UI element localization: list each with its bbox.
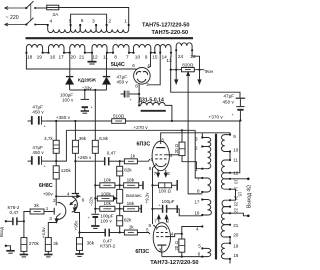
row: coupling to lower output grid (0,47 К73П-2, 1k) — [80, 224, 151, 248]
capacitor 47uF 450v (main +370v filter) — [223, 94, 246, 122]
transformer T1 core — [26, 37, 194, 39]
svg-text:22: 22 — [234, 208, 239, 213]
svg-text:6: 6 — [132, 63, 135, 68]
svg-text:10: 10 — [233, 148, 239, 153]
svg-text:+4,5v: +4,5v — [41, 227, 46, 239]
wire 5Ц4С cathode pin 8 down to choke — [138, 84, 140, 107]
svg-text:4: 4 — [50, 19, 53, 25]
T2 jumper pin14 to pin24 with tap 15 — [230, 189, 236, 200]
svg-text:100 Ω: 100 Ω — [159, 188, 172, 193]
T2 right winding 9-10 — [221, 134, 238, 153]
svg-text:6,8k: 6,8k — [99, 136, 108, 141]
mains input arrows ~220 — [5, 7, 26, 27]
svg-text:450 v: 450 v — [223, 100, 235, 105]
wire pin21 to pin12 — [85, 52, 92, 54]
wire from pin 18 down and right to rectifier anode — [26, 53, 136, 69]
wire 5Ц4С pin 2 right up to winding pin 14 — [149, 53, 161, 85]
T2 left winding 2-1 — [195, 147, 211, 173]
T2 right winding 21-20 — [221, 225, 230, 237]
svg-text:82k: 82k — [124, 217, 132, 222]
resistor 36k — [72, 121, 92, 162]
svg-text:6П3С: 6П3С — [135, 249, 149, 255]
svg-text:16: 16 — [194, 210, 200, 215]
svg-text:100μF: 100μF — [162, 199, 175, 204]
cathode line connecting output tubes — [144, 168, 153, 224]
svg-text:100 v: 100 v — [62, 97, 74, 102]
svg-text:7: 7 — [154, 171, 157, 176]
svg-text:+90v: +90v — [43, 192, 54, 197]
svg-text:1k: 1k — [129, 224, 135, 229]
HV feed winding pin 13 to main filter cap — [171, 53, 240, 98]
resistor 82k (upper grid leak) — [117, 161, 133, 189]
screen tap wire to transformer pin 1 — [182, 156, 202, 169]
V2a cathode to 3k cathode resistor — [41, 221, 59, 257]
svg-text:−33v: −33v — [82, 85, 93, 90]
svg-text:18: 18 — [233, 253, 239, 258]
wire 5Ц4С anode pin4 up to winding pin 9 — [148, 53, 151, 68]
resistor 3k (grid stopper) — [24, 203, 54, 222]
resistor 4,7k — [44, 121, 59, 162]
svg-text:10k: 10k — [104, 177, 112, 182]
capacitor 47uF 450v (first filter) — [117, 75, 140, 102]
svg-text:12: 12 — [92, 55, 98, 61]
choke L1 Д31-5-0,14 — [138, 97, 173, 122]
+270 rail drop to transformer pin 7 — [195, 130, 202, 178]
T2 right winding 12-13 — [222, 173, 230, 179]
svg-text:4: 4 — [170, 153, 173, 158]
switch SA1 (double pole) — [25, 1, 36, 25]
svg-text:8: 8 — [197, 189, 200, 194]
secondary winding 12-11 — [91, 45, 108, 61]
svg-text:0,47: 0,47 — [10, 210, 19, 215]
T2 right winding 23-22 — [222, 207, 230, 214]
svg-text:2A: 2A — [53, 12, 60, 18]
T2 top jumper pin3 to pin9 — [202, 133, 230, 138]
resistor 510Ω in rail — [112, 114, 126, 124]
rectifier tube V1 5Ц4С — [111, 62, 150, 89]
-33v node wire — [70, 85, 107, 91]
output terminal 1 from pin 13 — [230, 178, 250, 181]
svg-text:13: 13 — [166, 58, 172, 64]
svg-text:21: 21 — [233, 223, 239, 228]
wire pin7 to pin10 — [129, 52, 134, 54]
svg-text:~ 220: ~ 220 — [6, 15, 19, 21]
svg-text:1k: 1k — [130, 154, 136, 159]
svg-text:820Ω: 820Ω — [182, 62, 194, 67]
T2 left winding 7-8 — [197, 176, 211, 193]
svg-text:3: 3 — [92, 18, 95, 24]
wire V2a anode to V2b grid (+90v line) — [56, 191, 80, 197]
svg-text:8: 8 — [135, 84, 138, 89]
triode V2a (left half of 6Н8С) — [49, 196, 66, 222]
wire +270 node corner to rail — [56, 130, 66, 161]
lower tube screen wire and 20Ω — [166, 227, 202, 258]
secondary winding 24-22 (hum pot winding) — [175, 43, 196, 60]
svg-text:24: 24 — [234, 196, 239, 201]
lower tube heater pins with arrows — [154, 215, 169, 223]
secondary winding 20-21 — [69, 45, 86, 61]
triode V2b (right half of 6Н8С, phase splitter) — [70, 161, 85, 212]
svg-text:11: 11 — [103, 55, 108, 61]
svg-text:Вход: Вход — [0, 227, 4, 237]
wire fuse to primary pin 1 — [59, 8, 129, 25]
T2 right winding 13-14 — [222, 179, 230, 189]
svg-text:8: 8 — [149, 223, 152, 228]
svg-text:4,7k: 4,7k — [44, 136, 53, 141]
+270v rail — [66, 125, 195, 130]
capacitor 47uF 450v (decoupling cap on +270v node) — [28, 145, 57, 169]
svg-text:20 Ω: 20 Ω — [174, 143, 179, 153]
balance pot 100k (Баланс) — [117, 189, 143, 215]
cathode row 1: 100Ω with end plates — [153, 180, 178, 193]
svg-text:19: 19 — [233, 243, 239, 248]
svg-text:+95v: +95v — [74, 220, 79, 230]
T2 left tap pin 4 (screen UL tap) — [201, 225, 203, 227]
output tube V3 6П3С (upper) — [137, 136, 174, 172]
svg-text:2: 2 — [146, 82, 149, 87]
svg-text:82k: 82k — [124, 168, 132, 173]
output tube V4 6П3С (lower) — [135, 223, 174, 257]
V2b cathode wire down to lower coupling row — [74, 210, 81, 234]
svg-text:270k: 270k — [29, 241, 40, 246]
svg-text:Выход 4Ω: Выход 4Ω — [246, 185, 252, 208]
svg-text:20: 20 — [233, 233, 239, 238]
svg-text:20 Ω: 20 Ω — [174, 240, 179, 250]
svg-text:2: 2 — [167, 171, 170, 176]
svg-text:3k: 3k — [34, 203, 40, 208]
svg-text:5Ц4С: 5Ц4С — [111, 62, 125, 68]
svg-text:Фон: Фон — [205, 69, 214, 74]
jumper pin5 to pin2 — [71, 14, 107, 24]
svg-text:17: 17 — [194, 199, 200, 204]
transformer T1 primary winding 4-5-6-3-2-1 — [47, 18, 130, 33]
svg-text:+265 v: +265 v — [77, 155, 92, 160]
+370 rail drop to transformer pin 12 — [230, 121, 240, 173]
svg-text:+270 v: +270 v — [133, 125, 148, 130]
svg-text:10: 10 — [135, 55, 141, 61]
svg-text:3: 3 — [161, 138, 164, 143]
resistor 120k — [53, 161, 71, 197]
svg-text:36k: 36k — [79, 136, 87, 141]
T2 right winding 22-21 — [222, 213, 230, 224]
svg-text:6: 6 — [82, 198, 85, 203]
ground below bias line cap — [91, 226, 99, 228]
svg-text:8: 8 — [114, 55, 117, 61]
ground below bias filter cap — [81, 111, 89, 113]
svg-text:ТАН73-127/220-50: ТАН73-127/220-50 — [150, 260, 198, 266]
svg-text:17: 17 — [59, 55, 65, 61]
svg-text:7: 7 — [126, 55, 129, 61]
hum pot 820Ω Фон — [170, 50, 214, 194]
svg-text:КД205Ж: КД205Ж — [78, 78, 97, 83]
+370v / +360v rail — [46, 114, 241, 122]
resistor 270k (grid leak) — [20, 221, 40, 257]
svg-text:2: 2 — [195, 145, 198, 150]
upper tube anode wire to output transformer top — [161, 133, 202, 136]
svg-text:5: 5 — [146, 228, 149, 233]
svg-text:ТАН75-220-50: ТАН75-220-50 — [152, 30, 189, 36]
ground at input terminal — [6, 246, 15, 253]
secondary winding 8-7 — [112, 44, 130, 60]
svg-text:−22v: −22v — [89, 196, 94, 206]
lower tube anode wire to transformer pin 6 — [162, 256, 203, 258]
svg-text:21: 21 — [79, 55, 85, 61]
capacitor 100uF 100v (bias filter) — [60, 90, 94, 111]
cathode row 2: 100uF to cathode winding — [153, 199, 203, 216]
wire pin9 to pin15 — [151, 52, 155, 54]
svg-text:18k: 18k — [127, 201, 135, 206]
svg-text:+9,3v: +9,3v — [144, 192, 149, 204]
svg-text:120k: 120k — [61, 168, 72, 173]
svg-text:6П3С: 6П3С — [137, 141, 151, 147]
svg-text:36k: 36k — [87, 241, 95, 246]
svg-text:10k: 10k — [104, 201, 112, 206]
svg-text:18: 18 — [27, 55, 33, 61]
wire pin19 to pin16 — [43, 52, 49, 54]
svg-text:3: 3 — [195, 136, 198, 141]
svg-text:23: 23 — [234, 202, 239, 207]
ground at winding tap 12 — [88, 53, 97, 64]
svg-text:+360 v: +360 v — [56, 115, 71, 120]
svg-text:510Ω: 510Ω — [113, 114, 125, 119]
output transformer T2 core — [215, 134, 217, 260]
svg-text:20: 20 — [71, 55, 77, 61]
svg-text:15: 15 — [152, 55, 158, 61]
secondary winding 16-17 — [47, 44, 65, 60]
svg-text:1: 1 — [46, 206, 49, 211]
svg-text:13: 13 — [234, 179, 239, 184]
svg-text:1: 1 — [195, 167, 198, 172]
bias row C: 10k and 18k — [95, 201, 141, 213]
capacitor К78-2 0,47 (input) — [6, 205, 25, 225]
feedback resistor 36k — [75, 233, 94, 257]
svg-text:2: 2 — [108, 18, 111, 24]
svg-text:19: 19 — [37, 55, 43, 61]
svg-text:1: 1 — [124, 19, 127, 25]
upper tube heater pins with arrows — [154, 170, 171, 177]
T2 left winding 17-16 — [194, 198, 211, 216]
bias diode VD1 КД205Ж — [66, 53, 73, 90]
svg-text:5: 5 — [198, 244, 201, 249]
svg-text:7: 7 — [197, 176, 200, 181]
svg-text:4: 4 — [171, 231, 174, 236]
T2 right winding 19-18 — [221, 243, 230, 259]
svg-text:18k: 18k — [127, 177, 135, 182]
wire switch to fuse — [35, 7, 47, 9]
wire switch to primary pin 4 — [35, 24, 48, 26]
svg-text:9: 9 — [233, 134, 236, 139]
bias row A: 10k and 18k — [95, 177, 143, 189]
svg-text:К73П-2: К73П-2 — [100, 243, 116, 248]
svg-text:6: 6 — [198, 252, 201, 257]
svg-text:100 v: 100 v — [100, 219, 112, 224]
svg-text:0,47: 0,47 — [107, 150, 116, 155]
svg-text:+370 v: +370 v — [209, 114, 224, 119]
bias row B: 100k to balance pot wiper — [95, 192, 116, 201]
svg-text:2: 2 — [167, 219, 170, 224]
svg-text:3: 3 — [159, 247, 162, 252]
svg-text:450 v: 450 v — [32, 150, 44, 155]
svg-text:450 v: 450 v — [117, 80, 129, 85]
svg-text:47μF: 47μF — [224, 94, 235, 99]
resistor 82k (lower grid leak) — [117, 216, 132, 233]
svg-text:4: 4 — [196, 227, 199, 232]
svg-text:12: 12 — [233, 170, 239, 175]
T2 right winding 11-12 — [221, 158, 238, 176]
svg-text:8: 8 — [149, 166, 152, 171]
T2 right winding 24-23 — [229, 199, 231, 201]
resistor 6,8k (bias dropper) — [89, 90, 109, 214]
T2 wire pin10 to pin11 — [229, 152, 231, 161]
wire pin11 to pin8 — [107, 52, 113, 54]
fuse FU1 2A — [47, 5, 59, 18]
bias diode VD2 КД205Ж — [103, 53, 110, 90]
secondary winding 10-9 — [132, 44, 152, 60]
svg-text:450 v: 450 v — [32, 110, 44, 115]
output terminal 2 from pin 22 — [230, 213, 250, 217]
screen resistor 20Ω (upper) — [166, 129, 185, 155]
T2 wire pin20 to pin19 — [229, 237, 231, 243]
svg-text:4: 4 — [67, 191, 70, 196]
svg-text:22: 22 — [190, 54, 196, 60]
svg-text:ТАН75-127/220-50: ТАН75-127/220-50 — [142, 23, 190, 29]
input terminal Вход — [0, 220, 7, 247]
svg-text:3k: 3k — [53, 241, 59, 246]
svg-text:9: 9 — [145, 55, 148, 61]
svg-text:7: 7 — [154, 219, 157, 224]
svg-text:6: 6 — [81, 18, 84, 24]
svg-text:2: 2 — [53, 198, 56, 203]
svg-text:3: 3 — [49, 216, 52, 221]
svg-text:24: 24 — [178, 54, 184, 60]
secondary winding 18-19 — [25, 45, 43, 61]
row: coupling to upper output grid (+265v node, 0,47 cap, 1k) — [75, 150, 153, 165]
capacitor 100uF 100v (bias line filter) — [88, 214, 114, 226]
secondary winding 15-14-13 — [152, 45, 172, 64]
capacitor 47uF 450v (decoupling cap on +360v rail) — [28, 105, 47, 129]
svg-text:6Н8С: 6Н8С — [39, 183, 53, 189]
svg-text:16: 16 — [50, 55, 56, 61]
svg-text:Баланс: Баланс — [126, 193, 142, 198]
T2 left winding 5-6 — [198, 244, 211, 258]
svg-text:11: 11 — [233, 158, 238, 163]
wire pin17 to pin20 — [64, 52, 70, 54]
T2 left winding 3-2 — [195, 136, 211, 150]
